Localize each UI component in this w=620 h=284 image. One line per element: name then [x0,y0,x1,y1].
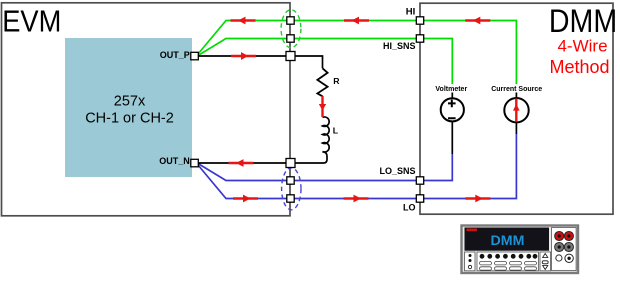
svg-text:Method: Method [549,57,609,77]
svg-text:DMM: DMM [491,233,525,249]
svg-text:R: R [333,76,340,86]
svg-text:DMM: DMM [549,3,617,39]
svg-text:HI_SNS: HI_SNS [383,41,416,51]
svg-text:Voltmeter: Voltmeter [435,86,467,93]
svg-text:CH-1 or CH-2: CH-1 or CH-2 [85,111,174,127]
svg-text:257x: 257x [114,94,146,110]
svg-text:L: L [333,125,339,135]
svg-text:LO_SNS: LO_SNS [379,166,415,176]
svg-text:OUT_P: OUT_P [160,50,190,60]
svg-text:4-Wire: 4-Wire [557,37,607,56]
svg-text:OUT_N: OUT_N [159,156,190,166]
svg-text:HI: HI [406,6,416,17]
svg-text:Current Source: Current Source [491,86,542,93]
svg-text:EVM: EVM [2,5,61,39]
svg-text:LO: LO [403,203,416,213]
